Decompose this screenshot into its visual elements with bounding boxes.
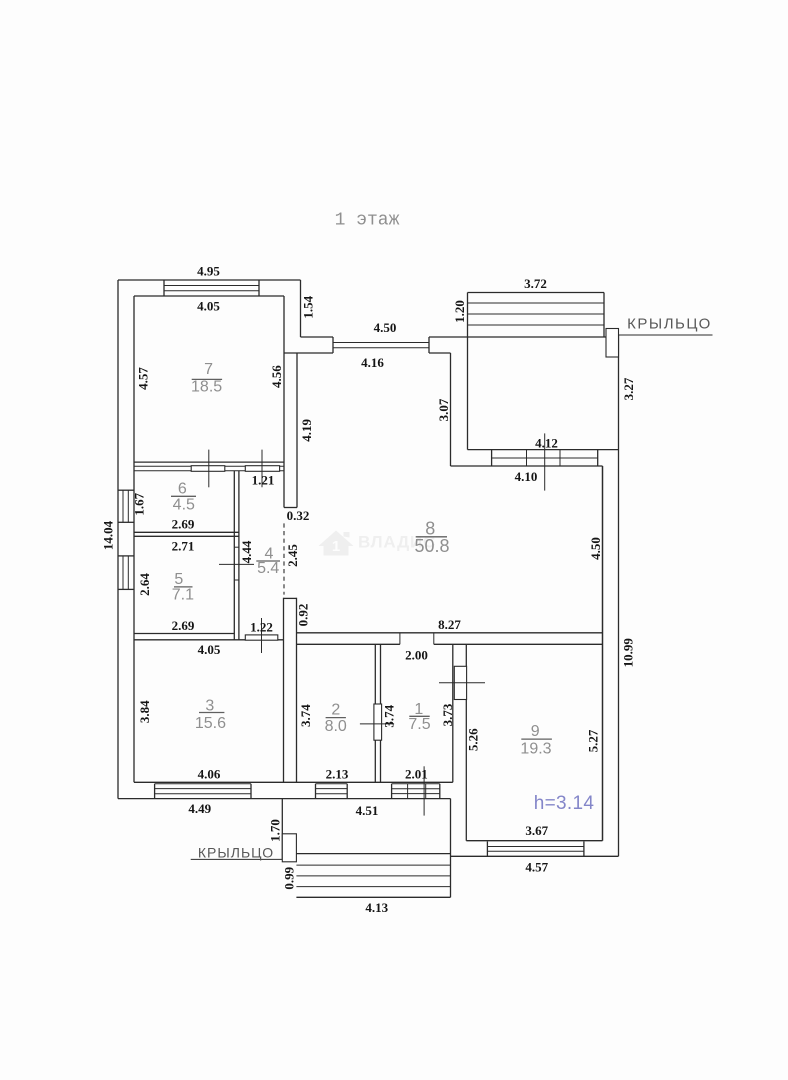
svg-text:3: 3	[205, 698, 214, 715]
svg-text:15.6: 15.6	[195, 715, 226, 732]
svg-text:7: 7	[204, 361, 213, 378]
svg-text:2.69: 2.69	[172, 618, 195, 633]
svg-text:4.13: 4.13	[365, 900, 388, 915]
svg-text:19.3: 19.3	[520, 741, 551, 758]
svg-text:2.71: 2.71	[172, 539, 195, 554]
svg-text:3.27: 3.27	[621, 377, 636, 400]
svg-text:4.05: 4.05	[197, 299, 220, 314]
svg-text:4.10: 4.10	[515, 469, 538, 484]
svg-text:4.16: 4.16	[361, 355, 384, 370]
svg-text:1 этаж: 1 этаж	[335, 211, 400, 231]
svg-text:КРЫЛЬЦО: КРЫЛЬЦО	[627, 316, 712, 333]
svg-text:4.56: 4.56	[269, 365, 284, 388]
svg-text:4.06: 4.06	[198, 767, 221, 782]
svg-text:2.13: 2.13	[326, 767, 349, 782]
svg-text:4.5: 4.5	[173, 496, 195, 513]
svg-text:10.99: 10.99	[621, 638, 636, 668]
svg-text:6: 6	[178, 481, 187, 498]
svg-text:КРЫЛЬЦО: КРЫЛЬЦО	[198, 844, 274, 860]
svg-text:5.26: 5.26	[465, 728, 480, 751]
svg-text:1.21: 1.21	[252, 473, 275, 488]
svg-text:2.00: 2.00	[405, 648, 428, 663]
svg-text:2.01: 2.01	[405, 767, 428, 782]
svg-text:0.32: 0.32	[287, 508, 310, 523]
svg-text:4.50: 4.50	[374, 320, 397, 335]
svg-text:h=3.14: h=3.14	[534, 793, 595, 814]
svg-text:4.51: 4.51	[356, 803, 379, 818]
svg-text:7.1: 7.1	[172, 587, 194, 604]
svg-text:4.95: 4.95	[197, 264, 220, 279]
svg-text:4.57: 4.57	[525, 860, 548, 875]
svg-text:4.50: 4.50	[588, 537, 603, 560]
svg-text:3.73: 3.73	[440, 703, 455, 726]
svg-text:3.72: 3.72	[524, 276, 547, 291]
svg-text:7.5: 7.5	[408, 716, 430, 733]
svg-text:1.54: 1.54	[301, 295, 316, 318]
svg-text:3.74: 3.74	[298, 704, 313, 727]
svg-text:3.84: 3.84	[137, 700, 152, 723]
svg-text:8.27: 8.27	[438, 617, 461, 632]
svg-text:2.69: 2.69	[172, 517, 195, 532]
svg-text:3.07: 3.07	[436, 398, 451, 421]
svg-text:3.74: 3.74	[382, 704, 397, 727]
svg-text:2.45: 2.45	[285, 544, 300, 567]
svg-text:1.22: 1.22	[250, 619, 273, 634]
svg-text:18.5: 18.5	[191, 378, 222, 395]
svg-text:1.70: 1.70	[268, 819, 283, 842]
svg-text:14.04: 14.04	[101, 520, 116, 550]
svg-text:4.12: 4.12	[535, 436, 558, 451]
svg-text:1.67: 1.67	[132, 492, 147, 515]
svg-text:5.27: 5.27	[586, 729, 601, 752]
svg-text:4.57: 4.57	[136, 367, 151, 390]
svg-text:2.64: 2.64	[137, 573, 152, 596]
svg-text:4.19: 4.19	[299, 419, 314, 442]
svg-text:0.92: 0.92	[296, 604, 311, 627]
svg-text:8.0: 8.0	[325, 718, 347, 735]
svg-text:5.4: 5.4	[257, 560, 279, 577]
svg-text:4.49: 4.49	[188, 801, 211, 816]
svg-text:3.67: 3.67	[525, 823, 548, 838]
svg-text:2: 2	[331, 701, 340, 718]
svg-text:4.44: 4.44	[239, 540, 254, 563]
svg-text:9: 9	[531, 723, 540, 740]
svg-text:1: 1	[332, 538, 340, 555]
svg-text:1.20: 1.20	[452, 300, 467, 323]
svg-text:4.05: 4.05	[198, 642, 221, 657]
svg-text:50.8: 50.8	[414, 536, 449, 556]
svg-text:0.99: 0.99	[282, 866, 297, 889]
svg-text:5: 5	[174, 571, 183, 588]
